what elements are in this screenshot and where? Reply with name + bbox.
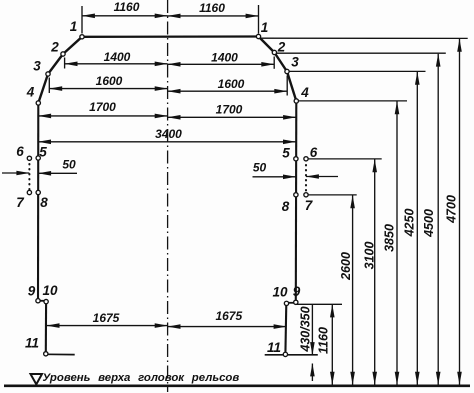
node 11 right	[283, 352, 287, 356]
svg-text:7: 7	[16, 195, 25, 210]
node 9 left	[36, 299, 40, 303]
svg-text:11: 11	[25, 336, 39, 351]
svg-text:1675: 1675	[215, 309, 242, 323]
wire outline main vertical left	[37, 103, 39, 301]
svg-text:1700: 1700	[89, 100, 116, 114]
wire outline foot extension right	[265, 354, 318, 356]
node 8 right	[294, 193, 298, 197]
svg-text:7: 7	[305, 198, 314, 213]
node 5 left	[36, 156, 40, 160]
extension line point 6 right	[306, 158, 382, 160]
extension line point 1 right	[259, 37, 468, 39]
wire outline step 9-10 right	[286, 302, 295, 304]
svg-text:5: 5	[39, 145, 47, 160]
svg-text:10: 10	[42, 283, 58, 298]
node 5 right	[294, 157, 298, 161]
wire outline step vertical 10-11 left	[45, 302, 47, 354]
dimension 4250 vertical	[416, 72, 418, 385]
dimension 3100 vertical	[374, 159, 376, 384]
svg-text:8: 8	[282, 199, 290, 214]
svg-text:1160: 1160	[199, 1, 225, 15]
dimension 1160 right	[168, 5, 259, 34]
svg-text:4250: 4250	[403, 209, 417, 238]
svg-text:50: 50	[62, 157, 76, 171]
svg-text:1600: 1600	[218, 77, 245, 91]
svg-text:4: 4	[300, 85, 309, 100]
svg-text:3100: 3100	[363, 242, 377, 270]
node 4 right	[294, 99, 298, 103]
dimension 1600 right	[168, 76, 288, 96]
svg-text:2600: 2600	[339, 252, 353, 281]
dimension 1700 right	[168, 116, 296, 118]
svg-text:1160: 1160	[114, 0, 140, 14]
wire outline step 9-10 left	[38, 300, 46, 302]
svg-text:11: 11	[267, 340, 281, 355]
extension line point 9 right	[296, 303, 342, 305]
node 7 left	[27, 190, 31, 194]
node 11 left	[44, 352, 48, 356]
node 8 left	[36, 190, 40, 194]
svg-text:1: 1	[70, 19, 78, 34]
node 3 left	[46, 72, 50, 76]
node 3 right	[285, 69, 289, 73]
svg-text:2: 2	[50, 40, 59, 55]
wire outline step vertical 10-11 right	[284, 303, 287, 354]
dimension 1675 left	[47, 325, 168, 327]
svg-text:430/350: 430/350	[299, 306, 313, 352]
node 9 right	[294, 300, 298, 304]
wire outline slant 1-2 left	[63, 37, 82, 54]
dimension 4700 vertical	[459, 39, 461, 385]
svg-text:1700: 1700	[216, 103, 243, 117]
node 10 left	[44, 299, 48, 303]
extension line point 4 right	[296, 100, 407, 102]
node 7 right	[304, 193, 308, 197]
svg-text:1400: 1400	[211, 51, 238, 65]
node 10 right	[284, 301, 288, 305]
svg-text:3: 3	[33, 59, 41, 74]
node 4 left	[36, 101, 40, 105]
svg-text:1400: 1400	[104, 50, 131, 64]
wire dotted 6-7 right	[305, 160, 307, 194]
svg-text:1160: 1160	[317, 327, 331, 354]
extension line point 3 right	[287, 70, 426, 72]
node 1 right	[256, 34, 260, 38]
svg-text:3: 3	[291, 55, 299, 70]
svg-text:5: 5	[282, 146, 290, 161]
svg-text:10: 10	[272, 285, 288, 300]
svg-text:Уровень верха головок рельсов: Уровень верха головок рельсов	[43, 372, 240, 384]
svg-text:4700: 4700	[445, 195, 459, 224]
wire dotted 6-7 left	[28, 159, 30, 192]
wire outline slant 3-4 right	[287, 72, 296, 102]
dimension 1675 right	[168, 326, 287, 328]
node 2 right	[272, 50, 276, 54]
node 6 right	[304, 157, 308, 161]
dimension 50 left	[2, 172, 77, 174]
dimension 1160 left	[82, 6, 168, 34]
dimension 4500 vertical	[437, 54, 439, 385]
dimension 1160 vertical	[331, 305, 333, 385]
svg-text:4: 4	[26, 85, 35, 100]
svg-text:6: 6	[16, 144, 24, 159]
wire outline slant 3-4 left	[38, 74, 48, 103]
svg-text:6: 6	[310, 145, 318, 160]
svg-text:50: 50	[253, 160, 267, 174]
dimension 430/350 vertical	[311, 305, 313, 381]
svg-text:8: 8	[40, 195, 48, 210]
dimension 1400 left	[65, 58, 168, 69]
svg-text:1600: 1600	[96, 74, 123, 88]
dimension 2600 vertical	[352, 195, 354, 384]
svg-text:1675: 1675	[93, 311, 120, 325]
svg-text:1: 1	[261, 20, 269, 35]
svg-text:2: 2	[277, 40, 286, 55]
wire outline slant 2-3 right	[274, 53, 287, 72]
dimension 3850 vertical	[396, 101, 398, 384]
dimension 50 right	[253, 176, 339, 178]
wire outline main vertical right	[295, 101, 298, 303]
svg-text:9: 9	[293, 284, 301, 299]
extension line point 2 right	[274, 52, 445, 54]
wire outline slant 2-3 left	[48, 54, 63, 74]
svg-text:3400: 3400	[155, 127, 182, 141]
level mark triangle	[31, 374, 43, 384]
node 1 left	[80, 35, 84, 39]
node 2 left	[61, 52, 65, 56]
extension line point 7 right	[306, 194, 357, 196]
wire outline slant 1-2 right	[259, 37, 275, 53]
wire outline top	[82, 35, 259, 38]
svg-text:4500: 4500	[422, 209, 436, 238]
dimension 1400 right	[168, 57, 275, 69]
dimension 1700 left	[38, 115, 167, 117]
ground line rail head level	[4, 384, 470, 387]
dimension 1600 left	[49, 78, 167, 94]
dimension 3400	[38, 141, 296, 143]
centerline	[167, 0, 169, 392]
svg-text:3850: 3850	[383, 224, 397, 252]
svg-text:9: 9	[28, 284, 36, 299]
wire outline foot extension left	[46, 353, 75, 355]
node 6 left	[27, 156, 31, 160]
